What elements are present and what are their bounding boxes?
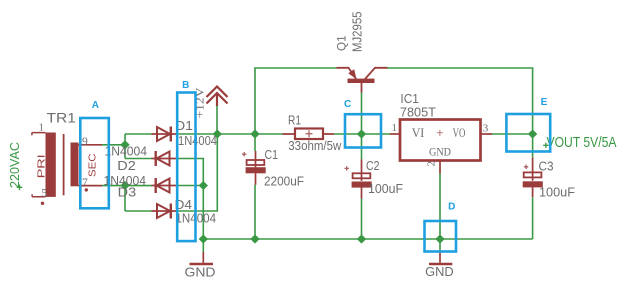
svg-text:GND: GND: [185, 266, 216, 280]
svg-text:D: D: [448, 202, 455, 213]
svg-text:1N4004: 1N4004: [105, 144, 148, 159]
wire IC1 pin2 down to rail: [439, 174, 441, 240]
svg-text:33ohm/5w: 33ohm/5w: [288, 138, 342, 153]
wire D1 row left: [125, 133, 152, 135]
wire D3 anode right: [177, 185, 204, 187]
svg-text:100uF: 100uF: [539, 185, 575, 200]
svg-text:1: 1: [392, 122, 398, 134]
wire VOUT node down to C3: [532, 134, 534, 158]
svg-text:E: E: [541, 97, 548, 108]
wire D1 cathode to +12V node: [177, 133, 218, 135]
diode D2: [152, 151, 177, 166]
svg-text:VOUT 5V/5A: VOUT 5V/5A: [547, 134, 617, 151]
annotation box C: [345, 114, 381, 147]
svg-text:C3: C3: [539, 158, 554, 173]
svg-text:100uF: 100uF: [368, 181, 403, 196]
diode D1: [152, 127, 177, 142]
capacitor C2: [345, 159, 372, 198]
transformer TR1 primary winding: [46, 133, 56, 197]
annotation box E: [506, 114, 550, 152]
svg-text:A: A: [92, 100, 99, 111]
transformer TR1 pin 7: [79, 185, 103, 187]
wire +12V supply stub: [216, 105, 218, 134]
wire Q1 base down through node C to C2: [361, 93, 363, 160]
svg-text:1: 1: [39, 121, 45, 133]
wire right column D1 cathode to D4 cathode: [177, 134, 218, 211]
svg-text:2: 2: [426, 161, 438, 167]
node junction pin7/D3: [120, 181, 129, 190]
IC1 pin 3 lead: [481, 133, 493, 135]
annotation box B: [177, 93, 195, 242]
resistor R1: [283, 129, 335, 140]
svg-text:SEC: SEC: [88, 154, 99, 178]
wire D2 row left: [125, 158, 152, 160]
wire bottom GND rail: [203, 238, 532, 240]
svg-text:VI: VI: [412, 126, 425, 140]
node junction +12V: [213, 129, 222, 138]
transformer TR1 pin 5: [32, 194, 46, 197]
transformer TR1 pin 1: [32, 133, 46, 136]
wire pin7 / D3 row: [102, 185, 152, 187]
svg-text:+: +: [436, 125, 443, 140]
svg-text:GND: GND: [429, 147, 451, 159]
wire C1 bottom to rail: [254, 185, 256, 239]
svg-text:Q1: Q1: [337, 35, 349, 51]
svg-text:R1: R1: [288, 112, 301, 127]
wire GND1 stub: [202, 239, 204, 252]
node junction C2 bottom: [357, 234, 366, 243]
svg-text:7805T: 7805T: [400, 104, 436, 119]
svg-text:C2: C2: [366, 158, 380, 173]
node junction VOUT: [528, 129, 537, 138]
wire D4 row left: [125, 210, 152, 212]
annotation box A: [80, 118, 109, 208]
transformer TR1 polarity dot pin7: [85, 188, 88, 191]
svg-text:B: B: [182, 80, 189, 91]
svg-text:2200uF: 2200uF: [264, 174, 304, 189]
wire GND2 stub: [439, 239, 441, 253]
transformer TR1 polarity dot pin5: [41, 202, 44, 205]
transformer TR1 pin 9: [79, 144, 103, 146]
diode D4: [152, 204, 177, 219]
wire left column lower (pin7 to D4 anode): [124, 186, 126, 212]
node junction GND2: [435, 234, 444, 243]
svg-text:VO: VO: [453, 126, 466, 140]
wire IC1 pin3 to VOUT node: [492, 133, 533, 135]
node junction C (base/R1/IC1): [357, 129, 366, 138]
svg-text:MJ2955: MJ2955: [351, 11, 365, 52]
wire main node to C1 node: [217, 133, 282, 135]
transformer TR1 secondary winding: [71, 143, 79, 187]
transformer TR1 core: [63, 134, 65, 195]
node junction C1 top: [250, 129, 259, 138]
svg-text:5: 5: [41, 187, 47, 199]
wire C2 bottom to rail: [361, 199, 363, 240]
node junction D2/D3 anodes: [199, 181, 208, 190]
wire R1 to IC1 pin1: [334, 133, 390, 135]
svg-text:9: 9: [82, 136, 88, 148]
IC1 pin 1 lead: [390, 133, 400, 135]
node junction pin9: [120, 140, 129, 149]
supply symbol +12V arrow: [207, 87, 228, 107]
ground symbol GND2: [429, 253, 452, 265]
ground symbol GND1: [190, 252, 214, 264]
capacitor C3: [523, 158, 543, 198]
svg-text:1N4004: 1N4004: [178, 133, 217, 148]
svg-text:TR1: TR1: [47, 110, 77, 125]
wire C3 bottom to rail: [532, 197, 534, 239]
voltage regulator IC1 box: [400, 120, 481, 161]
wire top rail left vertical and horizontal to Q1 emitter: [255, 68, 337, 134]
svg-text:GND: GND: [425, 265, 454, 279]
diode D3: [152, 178, 177, 193]
node junction GND rail left: [199, 234, 208, 243]
capacitor C1: [242, 151, 266, 185]
svg-text:C: C: [344, 99, 351, 110]
wire Q1 collector to right rail down to VOUT node: [387, 68, 533, 134]
svg-text:D2: D2: [117, 158, 136, 173]
wire D2 anode right and down to D3 anode and GND rail: [177, 159, 204, 240]
svg-text:220VAC: 220VAC: [7, 142, 22, 188]
net VOUT anchor cross: [543, 143, 548, 148]
transistor Q1: [337, 68, 388, 93]
wire pin9 to left column: [102, 144, 125, 146]
annotation box D: [425, 221, 457, 252]
wire left column upper (D1 anode / pin9 / D2 cathode): [124, 134, 126, 159]
IC1 pin 2 lead: [439, 161, 441, 174]
svg-text:7: 7: [82, 177, 88, 189]
node junction C1 bottom: [250, 234, 259, 243]
wire node to C1 top: [254, 134, 256, 151]
svg-text:C1: C1: [265, 147, 279, 162]
net 220VAC anchor cross: [17, 185, 23, 191]
svg-text:PRI: PRI: [36, 154, 48, 178]
svg-text:3: 3: [483, 123, 489, 135]
